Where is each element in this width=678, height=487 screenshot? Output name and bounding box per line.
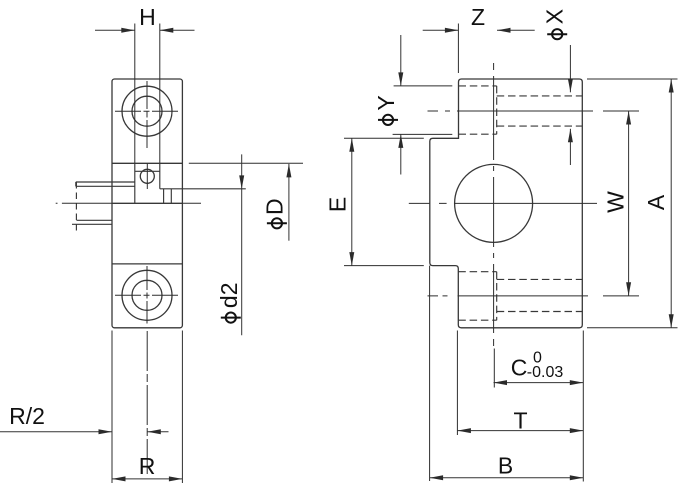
top hole horizontal centerline [115, 110, 179, 112]
svg-text:C: C [511, 354, 528, 380]
bottom counterbore hidden bottom line [458, 319, 496, 321]
Z left extension [457, 24, 459, 74]
label phiD [267, 218, 287, 228]
svg-text:Z: Z [471, 4, 485, 30]
clamp screw step vertical 2 [170, 189, 172, 203]
slit centerline extension right [182, 202, 201, 204]
dim phiX line bottom [569, 129, 571, 165]
arrow phiX top [568, 79, 573, 93]
H extension line left through part [134, 24, 136, 164]
slit centerline extension left [56, 202, 112, 204]
lever lower position top edge [77, 219, 113, 221]
bottom through hole circle [132, 280, 162, 310]
arrow R/2 left [99, 429, 113, 434]
arrow R right [169, 476, 183, 481]
lever lower position bottom edge [72, 223, 112, 225]
dim phiX line top [569, 45, 571, 92]
arrow E bottom [349, 252, 354, 266]
left view body outline [112, 79, 182, 328]
dim R/2 line left [0, 431, 112, 433]
arrow C right [570, 380, 584, 385]
arrow T left [457, 428, 471, 433]
A bottom extension [587, 327, 678, 329]
top through hole circle [132, 96, 162, 126]
dim phid2 line [241, 154, 243, 335]
svg-text:R: R [139, 453, 156, 479]
counterbore face line bottom [112, 263, 182, 265]
svg-text:H: H [139, 4, 156, 30]
E bottom extension [344, 265, 424, 267]
dim H line left [95, 29, 135, 31]
arrow Z right [497, 28, 511, 33]
bottom counterbore bottom vertical [496, 272, 498, 321]
bottom hole centerline [428, 295, 640, 297]
arrow A bottom [669, 314, 674, 328]
slit line [112, 202, 182, 204]
bottom counterbore hidden top line [458, 271, 496, 273]
arrow W bottom [626, 282, 631, 296]
top counterbore bottom vertical [496, 86, 498, 134]
svg-text:X: X [541, 9, 567, 24]
arrow B right [570, 475, 584, 480]
dim T line [457, 430, 583, 432]
right edge extension below [181, 331, 183, 484]
dim Z line left [423, 29, 459, 31]
label phid2 [221, 313, 241, 323]
arrow phiY top [398, 72, 403, 86]
arrow Z left [445, 28, 459, 33]
boss top line [135, 170, 160, 172]
top through hole hidden top line [497, 95, 583, 97]
arrow H right [160, 28, 174, 33]
bottom through hole hidden top line [497, 278, 583, 280]
boss vertical centerline [146, 163, 148, 189]
phiD extension of top hole line [189, 162, 303, 164]
arrow B left [430, 475, 444, 480]
arrow E top [349, 138, 354, 152]
right edge extension below [582, 331, 584, 482]
arrow phid2 down [239, 175, 244, 189]
bottom through hole hidden bottom line [497, 311, 583, 313]
dim W line [628, 111, 630, 296]
svg-text:-0.03: -0.03 [527, 364, 564, 381]
lever arm top edge [76, 181, 135, 183]
left edge extension below [111, 331, 113, 484]
top hole vertical centerline [146, 81, 148, 149]
right view body outline [430, 79, 583, 328]
arrow R/2 right [147, 429, 161, 434]
phiY bottom extension [393, 133, 453, 135]
arrow R left [112, 476, 126, 481]
arrow phiX bottom [568, 129, 573, 143]
lever swing dashed line [75, 182, 77, 232]
T left extension [456, 331, 458, 436]
bottom hole horizontal centerline [115, 294, 179, 296]
dim B line [430, 477, 584, 479]
arrow C left [494, 380, 508, 385]
lever tip cap [75, 182, 77, 186]
vertical centerline [493, 63, 495, 346]
H extension line right through part [159, 24, 161, 164]
svg-text:R/2: R/2 [9, 403, 45, 429]
arrow T right [570, 428, 584, 433]
clamp screw top line [160, 188, 246, 190]
phiY top extension [394, 85, 453, 87]
svg-text:A: A [643, 194, 669, 210]
bottom hole vertical centerline [146, 266, 148, 324]
C left extension [493, 349, 495, 388]
arrow A top [669, 79, 674, 93]
dim A line [670, 79, 672, 328]
dim C line [494, 382, 584, 384]
lever arm bottom edge [76, 185, 135, 187]
top through hole hidden bottom line [497, 125, 583, 127]
bottom counterbore outer circle [122, 270, 172, 320]
dim H line right [160, 29, 195, 31]
top counterbore outer circle [122, 86, 172, 136]
arrow H left [121, 28, 135, 33]
svg-text:B: B [498, 453, 513, 479]
dim phiY line bottom [400, 134, 402, 174]
svg-text:T: T [513, 407, 527, 433]
B left extension [429, 266, 431, 481]
dim R/2 line right [147, 431, 168, 433]
dim R line [112, 478, 182, 480]
arrow phiD up [286, 164, 291, 178]
arrow phiY bottom [398, 134, 403, 148]
clamp screw step vertical 1 [163, 189, 165, 203]
svg-text:Y: Y [373, 95, 399, 110]
label phiY [378, 115, 398, 125]
A top extension [587, 78, 678, 80]
boss left edge [134, 163, 136, 203]
centerline extension below [146, 331, 148, 474]
dim E line [351, 138, 353, 265]
clamp boss circle [140, 169, 154, 183]
svg-text:W: W [603, 191, 629, 213]
svg-text:D: D [262, 198, 288, 215]
dim phiY line top [400, 35, 402, 86]
E top extension [344, 137, 424, 139]
svg-text:E: E [324, 197, 350, 212]
label phiX [547, 29, 567, 39]
top counterbore hidden top line [459, 85, 497, 87]
dim phiD line [288, 164, 290, 241]
shaft hole circle [455, 164, 533, 242]
dim Z line right [497, 29, 535, 31]
svg-text:d2: d2 [216, 283, 242, 309]
counterbore face line top [112, 162, 182, 164]
boss right edge [159, 163, 161, 189]
arrow W top [626, 111, 631, 125]
shaft hole horizontal centerline [409, 202, 597, 204]
top hole centerline [428, 110, 640, 112]
top counterbore hidden bottom line [459, 133, 497, 135]
